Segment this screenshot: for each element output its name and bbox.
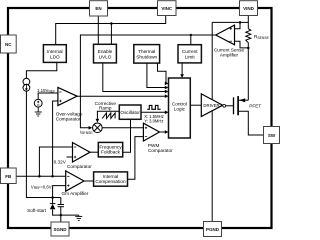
wire soft-start capacitor bottom (60, 207, 62, 215)
svg-text:Y: 3.0MHz: Y: 3.0MHz (144, 118, 163, 123)
wire multiplier output to PWM comparator plus input (102, 127, 143, 129)
svg-text:Comparator: Comparator (148, 148, 173, 153)
svg-text:VINC: VINC (161, 6, 173, 11)
wire FB node up to over-voltage comparator plus input (53, 101, 58, 176)
op-amp over-voltage comparator (58, 87, 77, 105)
wire CSA minus input step (235, 41, 249, 48)
svg-text:UVLO: UVLO (99, 54, 112, 59)
wire 1.15V reference to over-voltage comparator minus input (38, 93, 58, 99)
gate bubble (223, 104, 226, 107)
sawtooth waveform (102, 113, 115, 119)
svg-text:0.32V: 0.32V (54, 160, 67, 165)
pin EN (90, 1, 108, 16)
wire Internal LDO output to current source (26, 62, 56, 78)
wire PFET source stub (238, 99, 248, 101)
ground near soft-start (75, 215, 82, 220)
wire 0.32V comparator output to frequency foldback (90, 151, 98, 153)
block Enable UVLO (94, 44, 117, 63)
wire R_SENSE to PFET source (247, 43, 249, 101)
op-amp Gm amplifier (66, 171, 84, 191)
svg-text:Soft-start: Soft-start (27, 208, 47, 213)
resistor R_SENSE (246, 29, 251, 43)
svg-text:Amplifier: Amplifier (220, 53, 239, 58)
op-amp 0.32V comparator (73, 143, 91, 163)
wire sense rail drop to current limit (190, 35, 192, 45)
pin VIND (240, 1, 258, 16)
wire over-voltage comparator output to control logic (77, 95, 167, 97)
pin SGND (51, 222, 69, 236)
svg-text:Shutdown: Shutdown (136, 54, 157, 59)
transistor PFET (234, 96, 239, 115)
svg-text:Limit: Limit (185, 54, 196, 59)
svg-text:Oscillator: Oscillator (120, 110, 140, 115)
svg-text:DRIVER: DRIVER (203, 103, 219, 108)
svg-text:PGND: PGND (206, 227, 220, 232)
pulse waveform (147, 105, 160, 109)
voltage source 1.15V reference (34, 99, 42, 107)
wire enable UVLO output to control logic (103, 63, 167, 92)
op-amp DRIVER (201, 94, 222, 117)
svg-text:Comparator: Comparator (67, 164, 92, 169)
wire soft-start diode to ground rail (53, 209, 79, 215)
svg-text:1.15VREF: 1.15VREF (37, 88, 55, 94)
multiplier node (93, 123, 103, 133)
wire PFET drain to SW pin (238, 111, 264, 135)
block Thermal Shutdown (134, 45, 160, 64)
wire 0.32V stub to comparator plus input (67, 156, 73, 158)
svg-text:Compensation: Compensation (95, 179, 126, 184)
arrow into multiplier from I_SENSE (89, 126, 93, 130)
wire driver output to PFET gate (223, 105, 234, 107)
svg-text:NC: NC (5, 42, 12, 47)
wire VIND sense top rail (212, 21, 248, 23)
wire VIND pin to R_SENSE (247, 16, 249, 29)
wire soft-start capacitor top (60, 198, 62, 205)
svg-text:SGND: SGND (53, 227, 67, 232)
svg-text:VIND: VIND (243, 6, 255, 11)
wire SGND drop (60, 215, 62, 222)
wire long vertical VIND rail to PGND (211, 22, 213, 221)
block Frequency Foldback (98, 142, 122, 157)
op-amp PWM comparator (143, 123, 159, 141)
wire VINC rail to Internal LDO and Enable UVLO (56, 16, 166, 45)
svg-text:FB: FB (5, 174, 12, 179)
svg-text:VREF=0.6V: VREF=0.6V (31, 184, 52, 190)
wire rail drop to Enable UVLO (110, 24, 112, 45)
op-amp current sense amplifier (216, 25, 235, 45)
pin FB (1, 168, 17, 184)
pin PGND (204, 222, 222, 237)
block Control Logic (169, 78, 191, 138)
wire current source down to soft-start node (26, 91, 60, 197)
current source I1 (23, 78, 30, 91)
pin NC (1, 35, 17, 53)
wire current sense output rail to multiplier (80, 35, 215, 128)
svg-text:SW: SW (268, 133, 276, 138)
svg-text:Logic: Logic (174, 107, 186, 112)
wire EN pin to Enable UVLO (97, 16, 99, 44)
pin SW (264, 127, 280, 144)
svg-text:Gm Amplifier: Gm Amplifier (62, 191, 89, 196)
arrow into multiplier from oscillator (96, 119, 100, 123)
wire PWM comparator output to control logic (160, 131, 167, 133)
wire Gm amplifier plus input to soft-start (53, 186, 66, 204)
wire Gm amplifier output to internal compensation (84, 180, 94, 182)
wire oscillator output to control logic (141, 111, 167, 113)
wire current limit output down to control logic (181, 63, 183, 76)
wire FB node up to 0.32V comparator minus input (39, 147, 72, 176)
wire control logic output to driver (190, 104, 201, 106)
arrows into control logic (165, 82, 169, 86)
wire internal compensation to PWM comparator minus input (128, 137, 144, 180)
svg-text:LDO: LDO (50, 54, 60, 59)
wire oscillator to multiplier corrective ramp (97, 111, 119, 121)
wire oscillator bottom to frequency foldback output (123, 119, 131, 152)
svg-text:Comparator: Comparator (56, 116, 81, 121)
svg-text:Ramp: Ramp (99, 106, 112, 111)
block Oscillator (119, 105, 141, 119)
wire thermal shutdown jog to control logic (158, 63, 167, 83)
svg-text:Foldback: Foldback (101, 150, 121, 155)
ground below 1.15V reference (35, 107, 42, 116)
block Internal Compensation (94, 172, 128, 186)
soft-start diode (50, 204, 56, 210)
block Internal LDO (43, 45, 66, 63)
svg-text:PFET: PFET (249, 104, 261, 109)
svg-text:EN: EN (95, 6, 101, 11)
wire thermal shutdown output to control logic (147, 63, 167, 87)
pin VINC (158, 1, 177, 16)
wire CSA plus input step (235, 22, 241, 28)
soft-start capacitor (58, 205, 64, 207)
junction node dots (110, 22, 113, 25)
block Current Limit (178, 45, 201, 63)
wire FB pin to Gm amplifier minus input (16, 175, 65, 177)
IC boundary border (8, 8, 272, 228)
svg-text:ISENSE: ISENSE (80, 129, 93, 135)
